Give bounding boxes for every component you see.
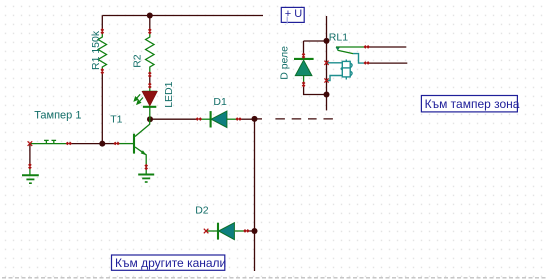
- svg-text:D1: D1: [213, 96, 227, 108]
- svg-text:LED1: LED1: [163, 81, 175, 107]
- svg-text:RL1: RL1: [329, 31, 348, 43]
- svg-text:Към другите канали: Към другите канали: [115, 256, 226, 270]
- svg-text:+ U: + U: [285, 8, 302, 20]
- svg-text:Тампер 1: Тампер 1: [34, 110, 81, 122]
- svg-text:Към тампер зона: Към тампер зона: [425, 97, 520, 111]
- svg-text:D2: D2: [195, 205, 209, 217]
- svg-text:R2: R2: [132, 54, 144, 68]
- svg-text:T1: T1: [110, 113, 122, 125]
- svg-text:R1 150k: R1 150k: [90, 30, 102, 70]
- svg-text:D реле: D реле: [279, 46, 291, 80]
